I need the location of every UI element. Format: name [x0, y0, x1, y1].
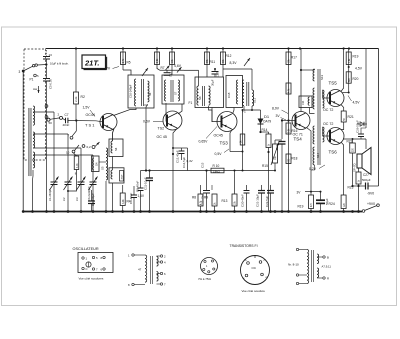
svg-text:S11: S11	[253, 98, 257, 103]
svg-text:C14,5µF: C14,5µF	[182, 157, 186, 168]
svg-text:C15: C15	[201, 162, 205, 168]
svg-text:8,3V: 8,3V	[230, 61, 238, 65]
svg-text:SP-7Ω: SP-7Ω	[353, 163, 357, 172]
svg-text:8,9V: 8,9V	[272, 107, 280, 111]
svg-text:OSCILLATEUR: OSCILLATEUR	[73, 247, 99, 251]
svg-text:C2: C2	[62, 197, 66, 201]
svg-text:R16: R16	[292, 129, 298, 133]
svg-text:0,2: 0,2	[87, 145, 92, 149]
svg-text:0,5V: 0,5V	[215, 152, 223, 156]
svg-text:C20-40nF: C20-40nF	[241, 194, 245, 207]
svg-text:C21-10µF: C21-10µF	[256, 194, 260, 207]
svg-text:S13: S13	[320, 74, 324, 80]
svg-text:4,6V: 4,6V	[174, 64, 182, 68]
svg-text:18kΩ: 18kΩ	[213, 169, 221, 173]
svg-text:Vue côté soudures: Vue côté soudures	[79, 277, 104, 281]
svg-text:+9V0: +9V0	[367, 202, 375, 206]
svg-text:2,2k: 2,2k	[74, 96, 78, 102]
svg-text:4,5V: 4,5V	[355, 67, 363, 71]
svg-text:R12: R12	[226, 54, 232, 58]
svg-text:F1: F1	[189, 101, 193, 105]
svg-text:C24: C24	[302, 100, 305, 105]
svg-text:R: R	[327, 277, 329, 281]
svg-text:OA79: OA79	[263, 120, 271, 124]
svg-text:C27: C27	[363, 173, 369, 177]
svg-text:30µF: 30µF	[211, 79, 215, 86]
svg-text:OC 72: OC 72	[323, 122, 333, 126]
svg-text:R5: R5	[127, 61, 131, 65]
svg-text:500µF: 500µF	[362, 178, 371, 182]
svg-text:C5-0,05: C5-0,05	[49, 79, 53, 89]
svg-text:TS4: TS4	[294, 137, 303, 142]
svg-text:C12,40nF: C12,40nF	[176, 150, 180, 163]
svg-text:21T.: 21T.	[84, 58, 99, 67]
svg-text:S7: S7	[173, 91, 177, 95]
svg-text:R9: R9	[204, 196, 208, 200]
svg-text:C18: C18	[227, 92, 231, 98]
svg-text:OC 72: OC 72	[323, 108, 333, 112]
svg-text:R22: R22	[347, 140, 353, 144]
svg-text:40nF: 40nF	[121, 174, 123, 180]
svg-text:OC44: OC44	[86, 113, 95, 117]
svg-text:TS5: TS5	[329, 81, 338, 86]
svg-text:TS2: TS2	[158, 127, 165, 131]
svg-text:1,5V: 1,5V	[83, 106, 91, 110]
svg-text:C9-40nF: C9-40nF	[129, 193, 133, 204]
svg-text:R13: R13	[222, 199, 228, 203]
svg-text:R21: R21	[348, 115, 354, 119]
svg-text:R7: R7	[161, 66, 165, 70]
svg-text:R 10: R 10	[213, 164, 220, 168]
svg-text:R11: R11	[210, 60, 216, 64]
svg-text:R18: R18	[292, 157, 298, 161]
svg-text:7Ω à 75Ω: 7Ω à 75Ω	[198, 277, 212, 281]
svg-text:R15: R15	[262, 164, 268, 168]
svg-text:B: B	[327, 256, 329, 260]
svg-text:10: 10	[66, 151, 70, 155]
svg-text:4,5V: 4,5V	[353, 101, 361, 105]
svg-text:S8: S8	[198, 96, 202, 100]
svg-text:P1: P1	[30, 78, 34, 82]
svg-text:R8: R8	[192, 196, 196, 200]
svg-text:S6: S6	[148, 92, 152, 96]
svg-text:S6: S6	[114, 147, 118, 151]
svg-text:R2: R2	[81, 95, 85, 99]
svg-text:C23: C23	[275, 144, 279, 150]
svg-text:S5: S5	[101, 166, 105, 170]
svg-text:C26-50µF: C26-50µF	[356, 120, 360, 133]
svg-text:TS6: TS6	[329, 150, 338, 155]
svg-text:C17: C17	[216, 71, 220, 77]
svg-text:D1: D1	[264, 114, 270, 119]
svg-text:T S 1: T S 1	[85, 123, 95, 128]
svg-text:C: C	[86, 267, 88, 271]
svg-text:OC45: OC45	[214, 134, 223, 138]
svg-text:13: 13	[49, 53, 53, 57]
svg-text:C1-240pF: C1-240pF	[48, 189, 52, 201]
svg-text:3: 3	[19, 70, 21, 74]
svg-text:-9V0: -9V0	[367, 192, 374, 196]
svg-text:TRANSISTORS FI: TRANSISTORS FI	[230, 244, 258, 248]
svg-text:C22-5µF: C22-5µF	[265, 195, 269, 207]
svg-text:A7,9,11: A7,9,11	[322, 265, 332, 269]
svg-text:R24: R24	[329, 202, 335, 206]
svg-text:Nr. 8-10: Nr. 8-10	[288, 263, 299, 267]
svg-text:40nF: 40nF	[63, 123, 70, 127]
svg-text:R20: R20	[353, 77, 359, 81]
svg-text:S14: S14	[316, 152, 320, 158]
svg-text:C10-240pF: C10-240pF	[129, 84, 133, 98]
svg-text:S4: S4	[95, 162, 99, 166]
svg-text:0,2V: 0,2V	[309, 167, 317, 171]
svg-text:Vue côté soudure: Vue côté soudure	[242, 289, 266, 293]
svg-text:OC 45: OC 45	[157, 135, 167, 139]
svg-text:0,65V: 0,65V	[199, 140, 209, 144]
svg-text:R19: R19	[353, 55, 359, 59]
svg-text:R19: R19	[298, 205, 304, 209]
svg-text:R14: R14	[262, 128, 268, 132]
svg-text:4,7k: 4,7k	[76, 163, 79, 168]
svg-text:7V: 7V	[106, 67, 111, 71]
svg-text:10µF à fil bouh.: 10µF à fil bouh.	[50, 62, 69, 66]
svg-text:C3: C3	[75, 197, 79, 201]
svg-text:3V: 3V	[276, 114, 281, 118]
svg-text:1,5V: 1,5V	[138, 194, 145, 198]
svg-text:0,4V: 0,4V	[187, 159, 193, 163]
svg-text:R17: R17	[291, 56, 297, 60]
svg-text:C7: C7	[65, 113, 69, 117]
svg-text:50: 50	[49, 121, 53, 125]
svg-text:47: 47	[138, 268, 142, 272]
svg-text:C11-10µF: C11-10µF	[144, 177, 148, 190]
svg-text:3,9k: 3,9k	[122, 199, 125, 204]
svg-text:0,6V: 0,6V	[143, 120, 151, 124]
svg-text:TS3: TS3	[220, 141, 229, 146]
